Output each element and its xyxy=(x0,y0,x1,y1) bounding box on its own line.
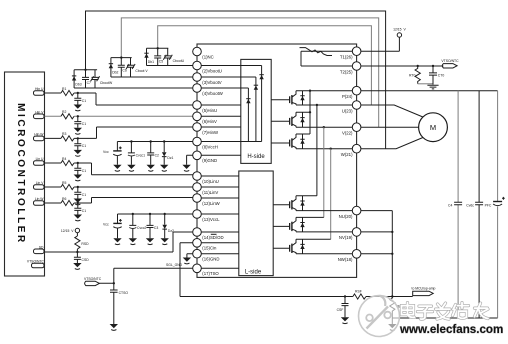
pin 16 GND xyxy=(193,249,220,261)
svg-text:M: M xyxy=(430,123,436,132)
svg-text:Hin U: Hin U xyxy=(35,87,44,91)
ground xyxy=(161,238,169,244)
ground xyxy=(110,324,118,330)
wire NW collector rail xyxy=(296,238,331,240)
wire LinU row xyxy=(45,163,198,175)
capacitor C6b xyxy=(118,58,127,77)
wire bootstrap U loop xyxy=(158,26,372,105)
wire V drop xyxy=(323,126,325,217)
resistor RT0 xyxy=(409,65,420,84)
svg-text:(10)LinU: (10)LinU xyxy=(202,179,218,184)
ground xyxy=(74,215,82,221)
thermistor TH1 xyxy=(300,48,333,56)
ground xyxy=(147,165,155,171)
wire shunt bus xyxy=(180,296,413,298)
transistor Q4 low-side U xyxy=(273,196,296,211)
MCU pin LinW xyxy=(34,197,45,205)
wire LinW row xyxy=(45,198,198,204)
ground xyxy=(127,165,135,171)
ground xyxy=(388,318,396,330)
capacitor C3r xyxy=(147,214,159,238)
svg-text:(2)VbootU: (2)VbootU xyxy=(202,68,222,73)
wire VbootW xyxy=(74,87,248,89)
svg-text:R2: R2 xyxy=(62,110,66,114)
wire HinV stub xyxy=(197,115,241,117)
tag to MCU/op-amp xyxy=(412,286,436,295)
wire GND16 xyxy=(187,254,239,258)
svg-text:H-side: H-side xyxy=(247,154,265,160)
svg-text:C1: C1 xyxy=(82,144,86,148)
wire VccL rail xyxy=(118,213,239,215)
svg-text:RSF: RSF xyxy=(355,290,362,294)
pin 6 HinV xyxy=(193,112,217,124)
svg-text:C4: C4 xyxy=(448,204,452,208)
MCU pin HinU xyxy=(34,87,45,95)
H-side driver box xyxy=(241,59,271,163)
svg-text:MICROCONTROLLER: MICROCONTROLLER xyxy=(15,103,26,245)
svg-text:NU(20): NU(20) xyxy=(339,214,353,219)
wire VbootU xyxy=(147,65,262,67)
pin 10 LinU xyxy=(193,172,219,184)
wire NU emitter xyxy=(296,210,392,212)
wire RT0 bottom xyxy=(418,83,433,85)
pin P(24) xyxy=(342,86,361,99)
wire Cin net xyxy=(180,243,239,297)
svg-text:C1: C1 xyxy=(82,99,86,103)
capacitor C2r xyxy=(147,142,159,165)
wire TSO stub xyxy=(197,267,239,269)
wire SD stub xyxy=(197,231,239,233)
wire T2 to RT0/CT0 xyxy=(361,65,443,67)
svg-text:C1: C1 xyxy=(82,193,86,197)
capacitor C5a xyxy=(74,187,86,199)
zener Dz2 xyxy=(162,214,174,238)
capacitor C1 xyxy=(74,93,86,105)
pin 7 HinW xyxy=(193,123,219,135)
svg-text:C1: C1 xyxy=(82,209,86,213)
svg-text:Dz2: Dz2 xyxy=(168,229,174,233)
wire LinV row xyxy=(45,186,198,188)
wire VbootV xyxy=(111,76,256,78)
pin T2(25) xyxy=(340,62,361,75)
wire GND9 xyxy=(187,155,241,165)
wire HinW stub xyxy=(197,126,241,128)
resistor R5 xyxy=(61,181,74,190)
wire SD row xyxy=(45,232,198,252)
wire NW emitter xyxy=(296,253,392,255)
diode D3 xyxy=(300,134,304,149)
svg-text:L-side: L-side xyxy=(245,269,262,275)
ground xyxy=(74,150,82,156)
svg-text:12/15 V: 12/15 V xyxy=(61,229,74,233)
pin 14 SD/OD xyxy=(193,228,224,240)
svg-text:Cvcc1: Cvcc1 xyxy=(136,153,146,157)
MCU pin HinW xyxy=(34,132,45,140)
resistor R3 xyxy=(61,132,74,141)
bootstrap group W rail xyxy=(74,69,97,71)
ground xyxy=(73,263,81,269)
svg-text:(3)VbootV: (3)VbootV xyxy=(202,80,221,85)
diode D2 xyxy=(300,112,304,127)
transistor Q6 low-side W xyxy=(273,239,296,254)
svg-text:SD: SD xyxy=(39,245,44,249)
svg-text:C1: C1 xyxy=(82,122,86,126)
svg-text:(6)HinV: (6)HinV xyxy=(202,119,217,124)
svg-text:Cboot V: Cboot V xyxy=(135,69,148,73)
svg-text:(5)HinU: (5)HinU xyxy=(202,108,217,113)
transistor Q1 high-side U xyxy=(271,91,296,105)
IC U1 box xyxy=(197,44,357,277)
svg-text:C3: C3 xyxy=(154,226,158,230)
svg-text:W(21): W(21) xyxy=(341,152,353,157)
svg-text:Vcc: Vcc xyxy=(103,222,109,226)
bootstrap diode DbW internal xyxy=(246,88,250,142)
terminal 12/15V xyxy=(61,228,80,236)
diode Db2 xyxy=(109,58,119,77)
svg-text:Hin V: Hin V xyxy=(35,110,44,114)
svg-text:Vcc: Vcc xyxy=(103,150,109,154)
transistor Q3 high-side W xyxy=(271,134,296,149)
svg-text:Db3: Db3 xyxy=(75,83,81,87)
svg-text:R1: R1 xyxy=(62,87,66,91)
svg-text:Dz1: Dz1 xyxy=(167,156,173,160)
svg-text:CTSO: CTSO xyxy=(119,291,129,295)
pin 5 HinU xyxy=(193,101,217,113)
resistor R2 xyxy=(61,110,74,119)
resistor RSD xyxy=(75,236,89,252)
wire LinU stub xyxy=(197,175,239,177)
capacitor Cvcc1 xyxy=(128,142,145,165)
MCU pin SD xyxy=(34,245,45,253)
svg-text:R4: R4 xyxy=(62,157,66,161)
ground xyxy=(113,238,121,244)
svg-text:NW(18): NW(18) xyxy=(338,257,353,262)
pin 12 LinW xyxy=(193,194,221,206)
wire T1 loop xyxy=(301,51,352,66)
wire HinV row xyxy=(45,115,198,117)
resistor R4 xyxy=(61,157,74,166)
pin T1(26) xyxy=(340,47,361,60)
svg-text:Cvcc2: Cvcc2 xyxy=(137,226,147,230)
wire HinU stub xyxy=(197,104,241,106)
wire NV collector rail xyxy=(296,216,324,218)
microcontroller U2 box xyxy=(5,72,45,276)
ground xyxy=(113,165,121,171)
svg-text:RSD: RSD xyxy=(81,242,89,246)
svg-text:(12)LinW: (12)LinW xyxy=(202,201,220,206)
bootstrap group U rail xyxy=(147,47,169,49)
svg-text:Hin W: Hin W xyxy=(34,132,44,136)
MCU pin LinV xyxy=(34,181,45,189)
ground xyxy=(74,175,82,181)
wire HinU row xyxy=(45,93,198,105)
pin 3 VbootV xyxy=(193,73,222,85)
svg-text:NV(19): NV(19) xyxy=(339,235,353,240)
svg-text:C6: C6 xyxy=(122,69,126,73)
svg-text:P(24): P(24) xyxy=(342,94,353,99)
wire N common xyxy=(391,211,393,297)
pin NU(20) xyxy=(339,206,361,219)
capacitor Cvdc branch xyxy=(466,91,492,318)
svg-text:PFC: PFC xyxy=(485,204,492,208)
terminal 12/15V top xyxy=(393,27,406,37)
svg-text:RT0: RT0 xyxy=(409,73,415,77)
capacitor Cvcc2 xyxy=(129,214,146,238)
wire LinV stub xyxy=(197,186,239,188)
pin 11 LinV xyxy=(193,183,219,195)
pin 17 TSO xyxy=(193,264,220,276)
svg-text:(8)VccH: (8)VccH xyxy=(202,144,218,149)
pin U(23) xyxy=(342,101,361,114)
svg-text:R3: R3 xyxy=(62,132,66,136)
svg-text:(9)GND: (9)GND xyxy=(202,158,217,163)
wire V phase xyxy=(296,126,419,128)
capacitor C3a xyxy=(74,138,86,150)
capacitor C5b xyxy=(154,48,163,65)
pin W(21) xyxy=(341,144,361,157)
svg-text:C1: C1 xyxy=(82,169,86,173)
wire TSO net xyxy=(99,268,197,283)
svg-text:R5: R5 xyxy=(62,181,66,185)
ground xyxy=(74,128,82,134)
wire NV emitter xyxy=(296,231,392,233)
watermark logo circle xyxy=(359,296,400,337)
svg-text:Db1: Db1 xyxy=(148,60,154,64)
svg-text:CSD: CSD xyxy=(82,258,90,262)
junction dots xyxy=(77,47,318,215)
svg-text:Db2: Db2 xyxy=(112,70,118,74)
svg-text:Lin U: Lin U xyxy=(36,157,44,161)
svg-text:VTSO/NTC: VTSO/NTC xyxy=(441,59,459,63)
ground SGL_GND xyxy=(166,258,191,268)
pin 1 NC xyxy=(193,47,214,59)
svg-text:(11)LinV: (11)LinV xyxy=(202,190,218,195)
MCU pin VTSO/NTC tag xyxy=(27,260,45,268)
svg-text:VTSO/NTC: VTSO/NTC xyxy=(84,277,102,281)
resistor R6 xyxy=(61,197,74,206)
diode D1 xyxy=(300,91,304,105)
resistor RSF xyxy=(353,290,366,300)
capacitor CT0 xyxy=(429,65,444,85)
wire W phase xyxy=(296,138,423,149)
tag VTSO/NTC upper xyxy=(441,59,459,68)
svg-text:SGL_GND: SGL_GND xyxy=(166,263,183,267)
svg-text:VTSO/NTC: VTSO/NTC xyxy=(27,260,45,264)
svg-text:(1)NC: (1)NC xyxy=(202,54,213,59)
svg-text:T2(25): T2(25) xyxy=(340,69,353,74)
svg-text:(4)VbootW: (4)VbootW xyxy=(202,91,223,96)
motor M xyxy=(419,113,448,142)
capacitor Cdc electrolytic branch xyxy=(493,91,505,318)
diode Db3 xyxy=(72,70,82,88)
svg-text:(7)HinW: (7)HinW xyxy=(202,130,219,135)
wire VccH rail xyxy=(117,141,261,143)
zener Dz1 xyxy=(162,142,174,165)
resistor Rshunt xyxy=(390,295,408,318)
pin 13 VccL xyxy=(193,210,220,222)
L-side driver box xyxy=(239,171,273,276)
wire bootstrap W loop xyxy=(86,11,386,149)
svg-text:V(22): V(22) xyxy=(342,131,353,136)
ground xyxy=(129,238,137,244)
bootstrap diode DbU internal xyxy=(259,66,263,142)
transistor Q5 low-side V xyxy=(273,217,296,232)
wire W drop xyxy=(330,148,332,240)
capacitor C6a xyxy=(74,203,86,215)
svg-text:12/15 V: 12/15 V xyxy=(393,27,406,31)
ground bars xyxy=(427,85,438,89)
wire LinW stub xyxy=(197,197,239,199)
svg-text:CbootW: CbootW xyxy=(100,81,113,85)
wire T1 to terminal xyxy=(361,37,399,51)
diode D5 xyxy=(300,217,304,232)
svg-text:Lin W: Lin W xyxy=(35,197,44,201)
svg-text:C7: C7 xyxy=(87,81,91,85)
capacitor CbootV xyxy=(126,58,148,77)
MCU pin LinU xyxy=(34,157,45,165)
svg-text:C2: C2 xyxy=(155,153,159,157)
capacitor CTSO xyxy=(110,282,128,324)
svg-text:www.elecfans.com: www.elecfans.com xyxy=(399,323,503,336)
svg-text:(17)TSO: (17)TSO xyxy=(202,271,219,276)
bootstrap diode DbV internal xyxy=(254,77,258,142)
wire P drop xyxy=(296,91,310,134)
diode D4 xyxy=(300,196,304,211)
wire bootstrap V loop xyxy=(121,18,378,127)
watermark hanzi row xyxy=(402,303,489,320)
ground xyxy=(182,165,190,171)
svg-text:R6: R6 xyxy=(62,197,66,201)
capacitor C4a xyxy=(74,163,86,175)
svg-text:CSF: CSF xyxy=(337,308,344,312)
MCU pin HinV xyxy=(34,110,45,118)
diode D6 xyxy=(300,239,304,254)
svg-text:U(23): U(23) xyxy=(342,108,353,113)
svg-text:C5: C5 xyxy=(159,59,163,63)
pin 15 Cin xyxy=(193,239,217,251)
pin 8 VccH xyxy=(193,137,218,149)
svg-text:T1(26): T1(26) xyxy=(340,55,353,60)
capacitor C4 branch xyxy=(448,91,462,318)
ground xyxy=(341,317,349,323)
pin 9 GND xyxy=(193,151,217,163)
wire NU collector rail xyxy=(296,195,317,197)
svg-text:Lin V: Lin V xyxy=(36,181,44,185)
wire HinW row xyxy=(45,127,198,138)
ground xyxy=(160,165,168,171)
ground xyxy=(74,105,82,111)
pin NW(18) xyxy=(338,250,361,263)
wire N bus xyxy=(392,317,497,319)
capacitor CvccL electrolytic xyxy=(103,214,122,238)
svg-text:to MCU/op-amp: to MCU/op-amp xyxy=(412,286,436,290)
capacitor CSD xyxy=(74,251,89,263)
svg-text:(14)SD/OD: (14)SD/OD xyxy=(202,235,223,240)
wire U phase xyxy=(296,105,423,117)
bootstrap group V rail xyxy=(111,57,132,59)
svg-text:(16)GND: (16)GND xyxy=(202,257,219,262)
capacitor CSF xyxy=(337,295,349,317)
wire P bus xyxy=(296,90,498,92)
svg-text:(15)Cin: (15)Cin xyxy=(202,246,217,251)
ground xyxy=(74,199,82,205)
transistor Q2 high-side V xyxy=(271,112,296,127)
capacitor C2a xyxy=(74,116,86,128)
resistor R1 xyxy=(61,87,74,96)
diode Db1 xyxy=(144,48,154,65)
capacitor CbootW xyxy=(91,70,113,88)
svg-text:CT0: CT0 xyxy=(438,74,445,78)
pin 2 VbootU xyxy=(193,61,222,73)
pin V(22) xyxy=(342,123,361,136)
capacitor C7b xyxy=(82,70,91,88)
pin 4 VbootW xyxy=(193,84,224,96)
capacitor CvccH electrolytic xyxy=(103,142,122,165)
svg-text:(13)VccL: (13)VccL xyxy=(202,217,220,222)
svg-text:CbootU: CbootU xyxy=(173,59,185,63)
pin NV(19) xyxy=(339,228,361,241)
capacitor CbootU xyxy=(163,48,184,65)
wire U drop xyxy=(316,105,318,196)
ground xyxy=(146,238,154,244)
tag VTSO/NTC lower xyxy=(84,277,102,286)
svg-text:Cvdc: Cvdc xyxy=(466,204,474,208)
